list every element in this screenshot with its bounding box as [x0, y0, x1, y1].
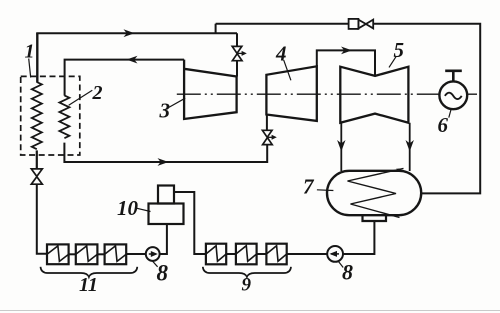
wire: deaerator outlet	[160, 224, 167, 254]
wire: main steam line to control valve	[36, 32, 237, 34]
label pointer 2	[69, 90, 93, 105]
LP heater bank 9: box b	[236, 244, 257, 265]
arrow on reheat line	[158, 158, 169, 166]
arrow on main steam line	[124, 29, 135, 37]
wire: pump to LP heater bank	[287, 253, 328, 255]
HP heater bank 11: box c	[47, 244, 69, 264]
wire: bypass tee up	[215, 24, 217, 34]
svg-text:11: 11	[79, 274, 98, 296]
svg-text:9: 9	[242, 274, 252, 295]
reheat stop valve	[262, 130, 272, 144]
arrow (left) on exhaust line	[127, 56, 138, 64]
svg-text:1: 1	[25, 41, 35, 63]
wire: pump to HP heater bank	[126, 253, 146, 255]
brace under bank 11	[41, 267, 138, 277]
arrowhead on cooling zigzag	[396, 168, 404, 170]
turbine 4	[266, 66, 316, 121]
wire: control valve drop into turbine 3	[236, 33, 238, 76]
coil 2 (reheater)	[59, 95, 69, 138]
svg-text:2: 2	[92, 82, 103, 104]
generator terminal	[445, 71, 462, 82]
brace under bank 9	[203, 267, 291, 277]
wire: bypass line top	[216, 24, 481, 194]
label pointer 4	[284, 60, 291, 80]
HP heater bank 11: box b	[76, 244, 98, 264]
label pointer 8 left	[152, 261, 157, 267]
deaerator 10	[158, 186, 174, 204]
label pointer 7	[317, 189, 334, 192]
coil 1 (evaporator)	[32, 82, 42, 149]
svg-text:8: 8	[157, 261, 169, 286]
wire between boxes	[69, 253, 76, 255]
condenser 7 vessel	[327, 171, 421, 215]
condenser hotwell	[363, 215, 387, 221]
svg-text:10: 10	[117, 196, 139, 220]
label pointer 10	[137, 208, 151, 211]
wire: bank 9 to deaerator riser	[174, 192, 206, 254]
HP heater bank 11: box a	[105, 244, 127, 264]
arrow at reheat valve	[268, 136, 274, 138]
label pointer 1	[29, 59, 31, 78]
generator 6	[439, 81, 467, 109]
steam generator dashed casing	[21, 76, 80, 155]
wire between boxes	[97, 253, 104, 255]
wire: valve to turbine 4 inlet	[266, 115, 268, 131]
wire: reheat return line to turbine 4	[64, 143, 267, 162]
pump 8 (condensate)	[327, 246, 343, 262]
arrow exhaust right	[406, 140, 414, 152]
turbine 5 (double-flow)	[340, 67, 408, 123]
shaft centerline	[177, 93, 477, 95]
LP heater bank 9: box a	[266, 244, 286, 265]
svg-text:3: 3	[159, 98, 171, 122]
svg-text:5: 5	[394, 38, 405, 62]
wire: coil 1 down to feed valve	[36, 150, 38, 169]
arrow at control valve	[238, 52, 244, 54]
label pointer 8 right	[338, 261, 343, 268]
LP heater bank 9: box c	[206, 244, 226, 265]
label pointer 6	[449, 109, 451, 118]
wire: crossover turbine 4 to turbine 5	[317, 50, 375, 76]
svg-text:4: 4	[275, 42, 287, 66]
feed valve	[31, 169, 42, 184]
wire: bank 11 to feed valve riser	[37, 184, 47, 254]
scan artifact bottom line	[0, 310, 500, 312]
wire: turbine 3 exhaust to reheat coil 2	[65, 60, 185, 96]
reducing valve	[349, 19, 374, 29]
wire between boxes	[257, 253, 267, 255]
svg-text:6: 6	[438, 113, 449, 137]
wire between boxes	[226, 253, 236, 255]
control valve	[232, 46, 242, 60]
svg-text:8: 8	[342, 260, 353, 285]
wire: condensate from hotwell to pump	[343, 221, 374, 254]
svg-text:7: 7	[303, 174, 315, 198]
turbine 3	[184, 60, 237, 119]
arrow on crossover	[341, 47, 352, 55]
wire: exhaust pipes to condenser	[341, 123, 409, 171]
label pointer 5	[389, 57, 396, 68]
arrow exhaust left	[337, 140, 345, 152]
wire: riser from coil 1 to main steam line	[36, 33, 38, 82]
pump 8 (feed)	[146, 247, 160, 261]
label pointer 3	[168, 98, 185, 107]
condenser cooling-water zigzag	[348, 168, 404, 217]
